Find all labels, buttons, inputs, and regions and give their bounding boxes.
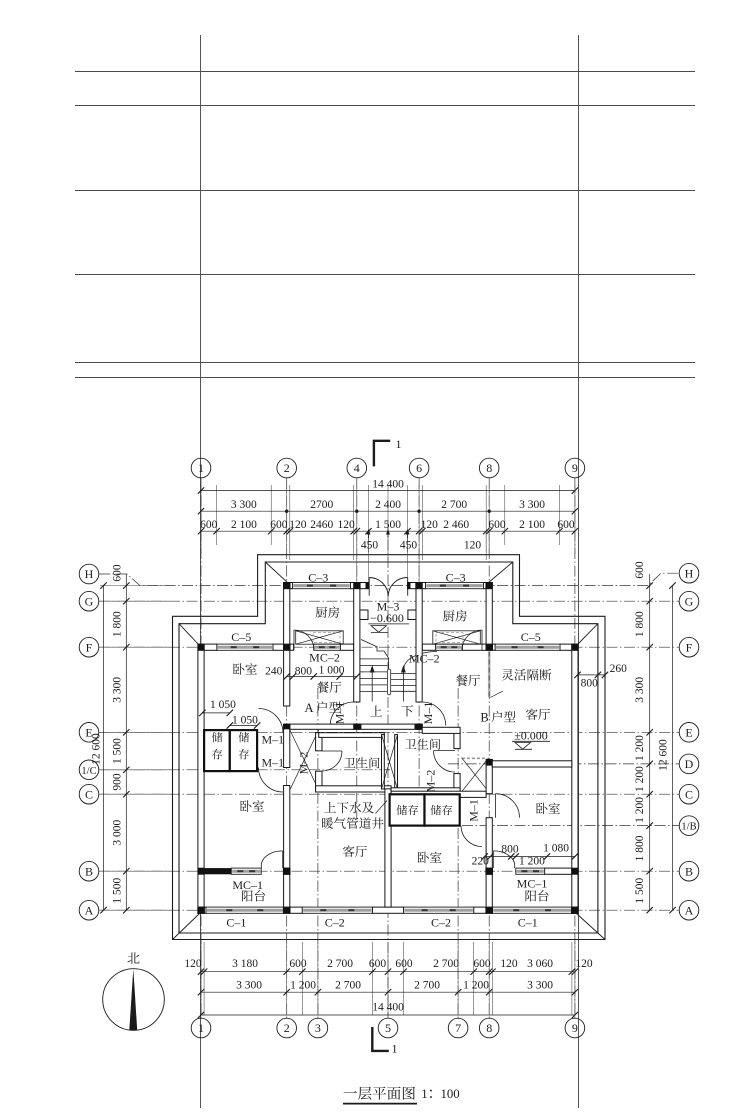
- svg-text:M–1: M–1: [333, 702, 347, 725]
- svg-text:1 050: 1 050: [232, 714, 258, 726]
- window MC-2 left: [314, 644, 341, 650]
- section marker top: [374, 441, 390, 467]
- label living left: [343, 845, 367, 857]
- svg-text:MC–1: MC–1: [232, 878, 263, 892]
- bubble 8 bottom: [479, 1018, 499, 1038]
- svg-text:G: G: [685, 594, 694, 608]
- svg-text:800: 800: [581, 678, 599, 690]
- wall right bedroom top (D): [492, 761, 572, 767]
- flexible partition (dashed): [488, 652, 491, 698]
- stair center handrail: [388, 669, 391, 695]
- svg-text:1 200: 1 200: [463, 980, 489, 992]
- svg-text:B: B: [85, 864, 93, 878]
- label bedroom TL: [233, 663, 257, 675]
- left bathroom left wall: [316, 733, 322, 751]
- bubble 1/B right: [679, 816, 699, 836]
- label bath left: [344, 757, 379, 768]
- svg-text:1: 1: [396, 437, 402, 451]
- svg-text:3 300: 3 300: [519, 499, 545, 511]
- svg-text:M–1: M–1: [467, 799, 481, 822]
- bubble 4 top: [347, 458, 367, 478]
- bubble C right: [679, 784, 699, 804]
- grid line 6: [418, 478, 420, 820]
- bubble 3 bottom: [308, 1018, 328, 1038]
- svg-text:C: C: [685, 787, 693, 801]
- svg-text:1: 1: [198, 461, 204, 475]
- svg-text:2 700: 2 700: [327, 958, 353, 970]
- svg-text:2 700: 2 700: [335, 980, 361, 992]
- columns on A wall: [198, 907, 205, 914]
- door MC-2 left arc: [294, 630, 314, 650]
- svg-text:3 300: 3 300: [112, 677, 124, 703]
- window C-1 right: [492, 907, 572, 913]
- bubble A right: [679, 900, 699, 920]
- svg-text:D: D: [685, 757, 694, 771]
- hip line right wing corner: [577, 624, 598, 646]
- label storage left2: [239, 732, 250, 759]
- right total dim: [672, 586, 674, 911]
- window C-2 left: [302, 907, 372, 913]
- grid line C: [99, 793, 679, 795]
- door jamb notch left: [360, 610, 368, 620]
- level symbol living: [515, 743, 531, 750]
- svg-text:C–5: C–5: [521, 630, 541, 644]
- label dining right: [456, 675, 480, 687]
- label bedroom BL: [240, 800, 264, 812]
- svg-text:4: 4: [354, 461, 360, 475]
- door MC-1 left arc: [282, 851, 284, 868]
- label balcony left: [242, 890, 265, 901]
- label bath right: [405, 739, 440, 750]
- svg-text:M–1: M–1: [421, 702, 435, 725]
- table horizontal rules (empty title block): [75, 71, 695, 73]
- svg-text:C–2: C–2: [325, 916, 345, 930]
- wall dining bottom right (E): [422, 727, 460, 733]
- svg-text:A: A: [685, 903, 694, 917]
- door M-3 double entry arcs: [369, 577, 408, 596]
- dim 800/260 right wing: [578, 674, 606, 676]
- svg-text:C–3: C–3: [446, 571, 466, 585]
- door M-1 upper (bedroom zone) arc: [259, 709, 284, 734]
- left closets (storage): [204, 730, 230, 771]
- svg-text:1 500: 1 500: [112, 738, 124, 764]
- door M-1 corridor arc: [461, 826, 482, 847]
- dim 240/800/1000 line: [287, 676, 357, 678]
- svg-text:C–1: C–1: [518, 916, 538, 930]
- bubble E left: [79, 723, 99, 743]
- svg-text:1 800: 1 800: [112, 611, 124, 637]
- grid line 5: [387, 522, 389, 1018]
- svg-text:C–1: C–1: [226, 916, 246, 930]
- page vertical rule left (grid 1 extension): [200, 35, 202, 1108]
- wall stair hall right (grid 6): [416, 589, 422, 702]
- svg-text:2700: 2700: [310, 499, 333, 511]
- svg-text:120: 120: [500, 958, 518, 970]
- wall divider grid5: [385, 789, 391, 907]
- svg-text:800: 800: [295, 666, 313, 678]
- label storage right1: [397, 805, 419, 815]
- svg-text:B: B: [685, 864, 693, 878]
- dim row detail bottom: [201, 971, 575, 973]
- right bathroom right wall: [454, 732, 460, 748]
- svg-text:F: F: [86, 640, 93, 654]
- flue box left kitchen: [296, 631, 344, 644]
- svg-text:E: E: [685, 725, 692, 739]
- svg-text:1 800: 1 800: [634, 835, 646, 861]
- grid line G: [99, 600, 679, 602]
- stair steps right flight: [391, 673, 416, 675]
- left dim line segments: [125, 574, 127, 910]
- svg-text:450: 450: [400, 540, 418, 552]
- svg-text:3 300: 3 300: [527, 980, 553, 992]
- bubble E right: [679, 723, 699, 743]
- wall dining bottom left (E): [290, 724, 354, 729]
- bubble D right: [679, 754, 699, 774]
- svg-text:2 100: 2 100: [519, 519, 545, 531]
- window C-5 right: [495, 644, 560, 650]
- wall kitchen left side (grid 2 H-F): [284, 589, 290, 644]
- svg-text:E: E: [85, 725, 92, 739]
- door M-1 right of stair arc: [422, 702, 446, 726]
- svg-text:2 400: 2 400: [375, 499, 401, 511]
- right dim line segments: [649, 574, 651, 910]
- svg-text:G: G: [85, 594, 94, 608]
- label shaft note line2: [322, 817, 384, 829]
- svg-text:2 100: 2 100: [231, 519, 257, 531]
- wall grid 2 vertical: [284, 650, 290, 706]
- svg-text:1 050: 1 050: [210, 699, 236, 711]
- svg-text:M–2: M–2: [297, 752, 311, 775]
- bubble 2 bottom: [277, 1018, 297, 1038]
- svg-text:120: 120: [464, 540, 482, 552]
- svg-text:1 200: 1 200: [519, 855, 545, 867]
- bottom extension lines: [200, 942, 202, 1015]
- svg-text:B: B: [480, 711, 488, 725]
- bubble 9 top: [565, 458, 585, 478]
- svg-text:1: 1: [392, 1042, 398, 1056]
- svg-text:800: 800: [501, 843, 519, 855]
- svg-text:14 400: 14 400: [372, 1002, 404, 1014]
- svg-text:2 700: 2 700: [441, 499, 467, 511]
- svg-text:120: 120: [337, 519, 355, 531]
- svg-text:3 300: 3 300: [231, 499, 257, 511]
- bubble H right: [679, 563, 699, 583]
- dim row total bottom: [201, 1014, 575, 1016]
- bubble B right: [679, 861, 699, 881]
- window C-1 left: [206, 907, 284, 913]
- stair arrow up: [371, 668, 373, 702]
- dim row axes bottom: [201, 991, 575, 993]
- label shaft note line1: [324, 802, 374, 814]
- svg-text:3 060: 3 060: [527, 958, 553, 970]
- svg-text:1 200: 1 200: [634, 735, 646, 761]
- grid line 1/C: [99, 769, 392, 771]
- svg-text:1：100: 1：100: [421, 1087, 459, 1101]
- svg-text:2: 2: [284, 1021, 290, 1035]
- svg-text:1 080: 1 080: [543, 842, 569, 854]
- bubble G left: [79, 591, 99, 611]
- bubble 1/C left: [79, 760, 99, 780]
- right shaft X: [462, 757, 486, 759]
- svg-text:120: 120: [289, 519, 307, 531]
- eaves outer line (roof overhang outer): [173, 555, 606, 940]
- bubble F right: [679, 637, 699, 657]
- svg-text:7: 7: [455, 1021, 461, 1035]
- title underline: [343, 1103, 417, 1105]
- svg-text:9: 9: [572, 461, 578, 475]
- svg-text:1 000: 1 000: [319, 665, 345, 677]
- window C-3 left kitchen: [293, 583, 351, 589]
- wall bedroom top right (C): [391, 791, 486, 797]
- bubble F left: [79, 637, 99, 657]
- label up: [370, 705, 382, 716]
- svg-text:M–2: M–2: [424, 770, 438, 793]
- wall B right with MC-1: [545, 868, 572, 874]
- svg-text:1 500: 1 500: [634, 878, 646, 904]
- svg-text:3 180: 3 180: [232, 958, 258, 970]
- svg-text:600: 600: [395, 958, 413, 970]
- stair arrow down: [402, 668, 404, 702]
- columns on F walls: [198, 644, 205, 651]
- svg-text:2: 2: [284, 461, 290, 475]
- left total dim: [103, 586, 105, 911]
- svg-text:3 300: 3 300: [236, 980, 262, 992]
- grid line 2: [286, 478, 288, 1018]
- dim row detail top: [201, 530, 575, 532]
- bubble 5 bottom: [378, 1018, 398, 1038]
- wall kitchen bottom right (F) MC-2: [416, 644, 436, 650]
- grid line 3: [317, 688, 319, 1018]
- svg-text:MC–2: MC–2: [409, 652, 440, 666]
- wall top (H) kitchen block segments: [284, 583, 293, 589]
- svg-text:3 000: 3 000: [112, 820, 124, 846]
- bubble H left: [79, 564, 99, 584]
- page vertical rule right (grid 9 extension): [578, 35, 580, 1108]
- hip line bottom-right corner: [577, 914, 606, 940]
- grid line 4: [356, 478, 358, 820]
- svg-text:450: 450: [361, 540, 379, 552]
- svg-text:8: 8: [486, 1021, 492, 1035]
- wall bottom (A) segments: [198, 907, 206, 913]
- svg-text:600: 600: [369, 958, 387, 970]
- window MC-2 right: [436, 644, 463, 650]
- door right bedroom arc: [496, 794, 520, 818]
- label dining left: [317, 681, 341, 693]
- door MC-2 right dining-side arc: [404, 652, 437, 669]
- svg-text:H: H: [685, 566, 694, 580]
- svg-text:F: F: [686, 640, 693, 654]
- grid line F: [99, 646, 679, 648]
- wall grid 8 vertical: [486, 759, 493, 765]
- door M-1 lower arc: [259, 768, 284, 793]
- plumbing shaft X (left): [290, 730, 319, 790]
- grid line E: [99, 731, 679, 733]
- svg-text:1/B: 1/B: [681, 822, 696, 833]
- hip line top-right kitchen corner: [488, 562, 513, 583]
- svg-text:1 200: 1 200: [290, 980, 316, 992]
- north needle: [129, 969, 137, 1030]
- bubble 6 top: [409, 458, 429, 478]
- title first floor plan: [344, 1087, 415, 1100]
- stair break line: [361, 640, 389, 670]
- bubble G right: [679, 591, 699, 611]
- hip line left wing corner: [179, 624, 200, 646]
- dim 220/800/1200/1080 balcony right: [485, 856, 575, 858]
- window C-2 right: [404, 907, 474, 913]
- bathroom bottom wall left: [319, 733, 385, 738]
- right closets (storage): [390, 794, 425, 825]
- stair steps left flight: [360, 658, 388, 660]
- svg-text:120: 120: [421, 519, 439, 531]
- svg-text:A: A: [85, 903, 94, 917]
- shaft note leader: [376, 801, 388, 814]
- label storage left1: [212, 732, 223, 759]
- svg-text:14 400: 14 400: [372, 479, 404, 491]
- svg-text:2 700: 2 700: [414, 980, 440, 992]
- label bedroom BC: [418, 852, 442, 864]
- north compass circle: [103, 969, 165, 1031]
- svg-text:120: 120: [575, 958, 593, 970]
- top extension lines: [200, 485, 202, 554]
- section marker bottom: [372, 1027, 389, 1051]
- label north: [127, 952, 139, 963]
- grid line A: [99, 909, 679, 911]
- svg-text:600: 600: [289, 958, 307, 970]
- wall stair hall left (grid 4): [354, 589, 360, 702]
- svg-text:5: 5: [385, 1021, 391, 1035]
- label flexible partition: [502, 669, 552, 681]
- door jamb notch right: [408, 610, 416, 620]
- svg-text:2460: 2460: [310, 519, 333, 531]
- svg-text:3 300: 3 300: [634, 677, 646, 703]
- grid line 7: [457, 688, 459, 1018]
- wall kitchen right side (grid 8 H-F): [486, 589, 492, 644]
- svg-text:M–1: M–1: [261, 756, 284, 770]
- left ext lines: [100, 585, 170, 587]
- dim 1050 #1: [202, 712, 230, 714]
- svg-text:1: 1: [198, 1021, 204, 1035]
- bubble 8 top: [479, 458, 499, 478]
- svg-text:MC–1: MC–1: [517, 876, 548, 890]
- hip line top-left kitchen corner: [265, 562, 288, 583]
- grid line H: [99, 573, 679, 585]
- svg-text:260: 260: [610, 663, 628, 675]
- svg-text:C–2: C–2: [431, 916, 451, 930]
- dim 1050 #2: [230, 725, 257, 727]
- bubble 9 bottom: [565, 1018, 585, 1038]
- eaves inner line (gutter): [179, 562, 598, 933]
- svg-text:600: 600: [557, 519, 575, 531]
- wall right exterior (grid 9): [572, 650, 578, 913]
- door M-1 left of stair arc: [330, 702, 354, 726]
- bathroom bottom wall right: [391, 788, 460, 794]
- dim row total 14400: [201, 490, 575, 492]
- svg-text:8: 8: [486, 461, 492, 475]
- grid line 8: [488, 478, 490, 1018]
- grid line 1: [200, 478, 202, 1018]
- svg-text:600: 600: [112, 564, 124, 582]
- label kitchen left: [316, 606, 340, 618]
- door M-2 right bath arc: [434, 751, 456, 773]
- svg-text:12 600: 12 600: [658, 739, 670, 771]
- svg-text:±0.000: ±0.000: [514, 729, 548, 743]
- svg-text:600: 600: [200, 519, 218, 531]
- label storage right2: [431, 805, 453, 815]
- svg-text:1/C: 1/C: [81, 766, 96, 777]
- svg-text:2 460: 2 460: [443, 519, 469, 531]
- door M-2 left bath arc: [322, 750, 342, 752]
- label down: [401, 705, 413, 716]
- wall stair hall bottom (E): [354, 724, 423, 729]
- sub dims 450/450/120: [368, 531, 370, 552]
- svg-text:M–1: M–1: [261, 733, 284, 747]
- svg-text:C–3: C–3: [308, 571, 328, 585]
- svg-text:3: 3: [315, 1021, 321, 1035]
- svg-text:1 500: 1 500: [375, 519, 401, 531]
- svg-text:240: 240: [265, 666, 283, 678]
- svg-text:600: 600: [473, 958, 491, 970]
- label kitchen right: [443, 610, 467, 622]
- label bedroom R: [536, 803, 560, 815]
- svg-text:1 500: 1 500: [112, 878, 124, 904]
- svg-text:900: 900: [112, 773, 124, 791]
- svg-text:−0.600: −0.600: [370, 611, 404, 625]
- door MC-1 right arc: [492, 851, 494, 868]
- hip line bottom-left corner: [173, 914, 200, 940]
- bubble 1 top: [191, 458, 211, 478]
- svg-text:9: 9: [572, 1021, 578, 1035]
- columns on H wall: [283, 582, 290, 589]
- wall left wing top (F) with C-5: [198, 644, 217, 650]
- svg-text:6: 6: [416, 461, 422, 475]
- door MC-2 right arc: [462, 630, 482, 650]
- bubble B left: [79, 861, 99, 881]
- bubble 2 top: [277, 458, 297, 478]
- bubble 7 bottom: [448, 1018, 468, 1038]
- wall B left with MC-1: [204, 868, 231, 874]
- svg-text:MC–2: MC–2: [309, 651, 340, 665]
- window C-5 left: [217, 644, 273, 650]
- svg-text:A: A: [304, 701, 313, 715]
- central duct shaft: [382, 735, 385, 789]
- svg-text:C–5: C–5: [231, 630, 251, 644]
- partition leader: [490, 691, 502, 697]
- svg-text:1 200: 1 200: [634, 766, 646, 792]
- svg-text:220: 220: [472, 855, 490, 867]
- bubble 1 bottom: [191, 1018, 211, 1038]
- bubble A left: [79, 900, 99, 920]
- grid line 1/B: [392, 825, 679, 827]
- window C-3 right kitchen: [426, 583, 484, 589]
- svg-text:2 700: 2 700: [433, 958, 459, 970]
- svg-text:600: 600: [634, 561, 646, 579]
- bubble C left: [79, 784, 99, 804]
- svg-text:120: 120: [184, 958, 202, 970]
- label living right: [526, 708, 550, 720]
- wall kitchen bottom left (F) MC-2: [284, 644, 294, 650]
- level symbol entry: [371, 626, 387, 633]
- svg-text:1 200: 1 200: [634, 797, 646, 823]
- svg-text:600: 600: [488, 519, 506, 531]
- svg-text:H: H: [85, 567, 94, 581]
- wall left exterior (grid 1): [198, 650, 204, 913]
- wall right wing top (F) with C-5: [486, 644, 495, 650]
- grid line 9: [574, 478, 576, 1018]
- flue box right kitchen: [433, 631, 481, 644]
- grid line D: [448, 763, 679, 765]
- dim row axes top: [201, 510, 575, 512]
- svg-text:1 800: 1 800: [634, 611, 646, 637]
